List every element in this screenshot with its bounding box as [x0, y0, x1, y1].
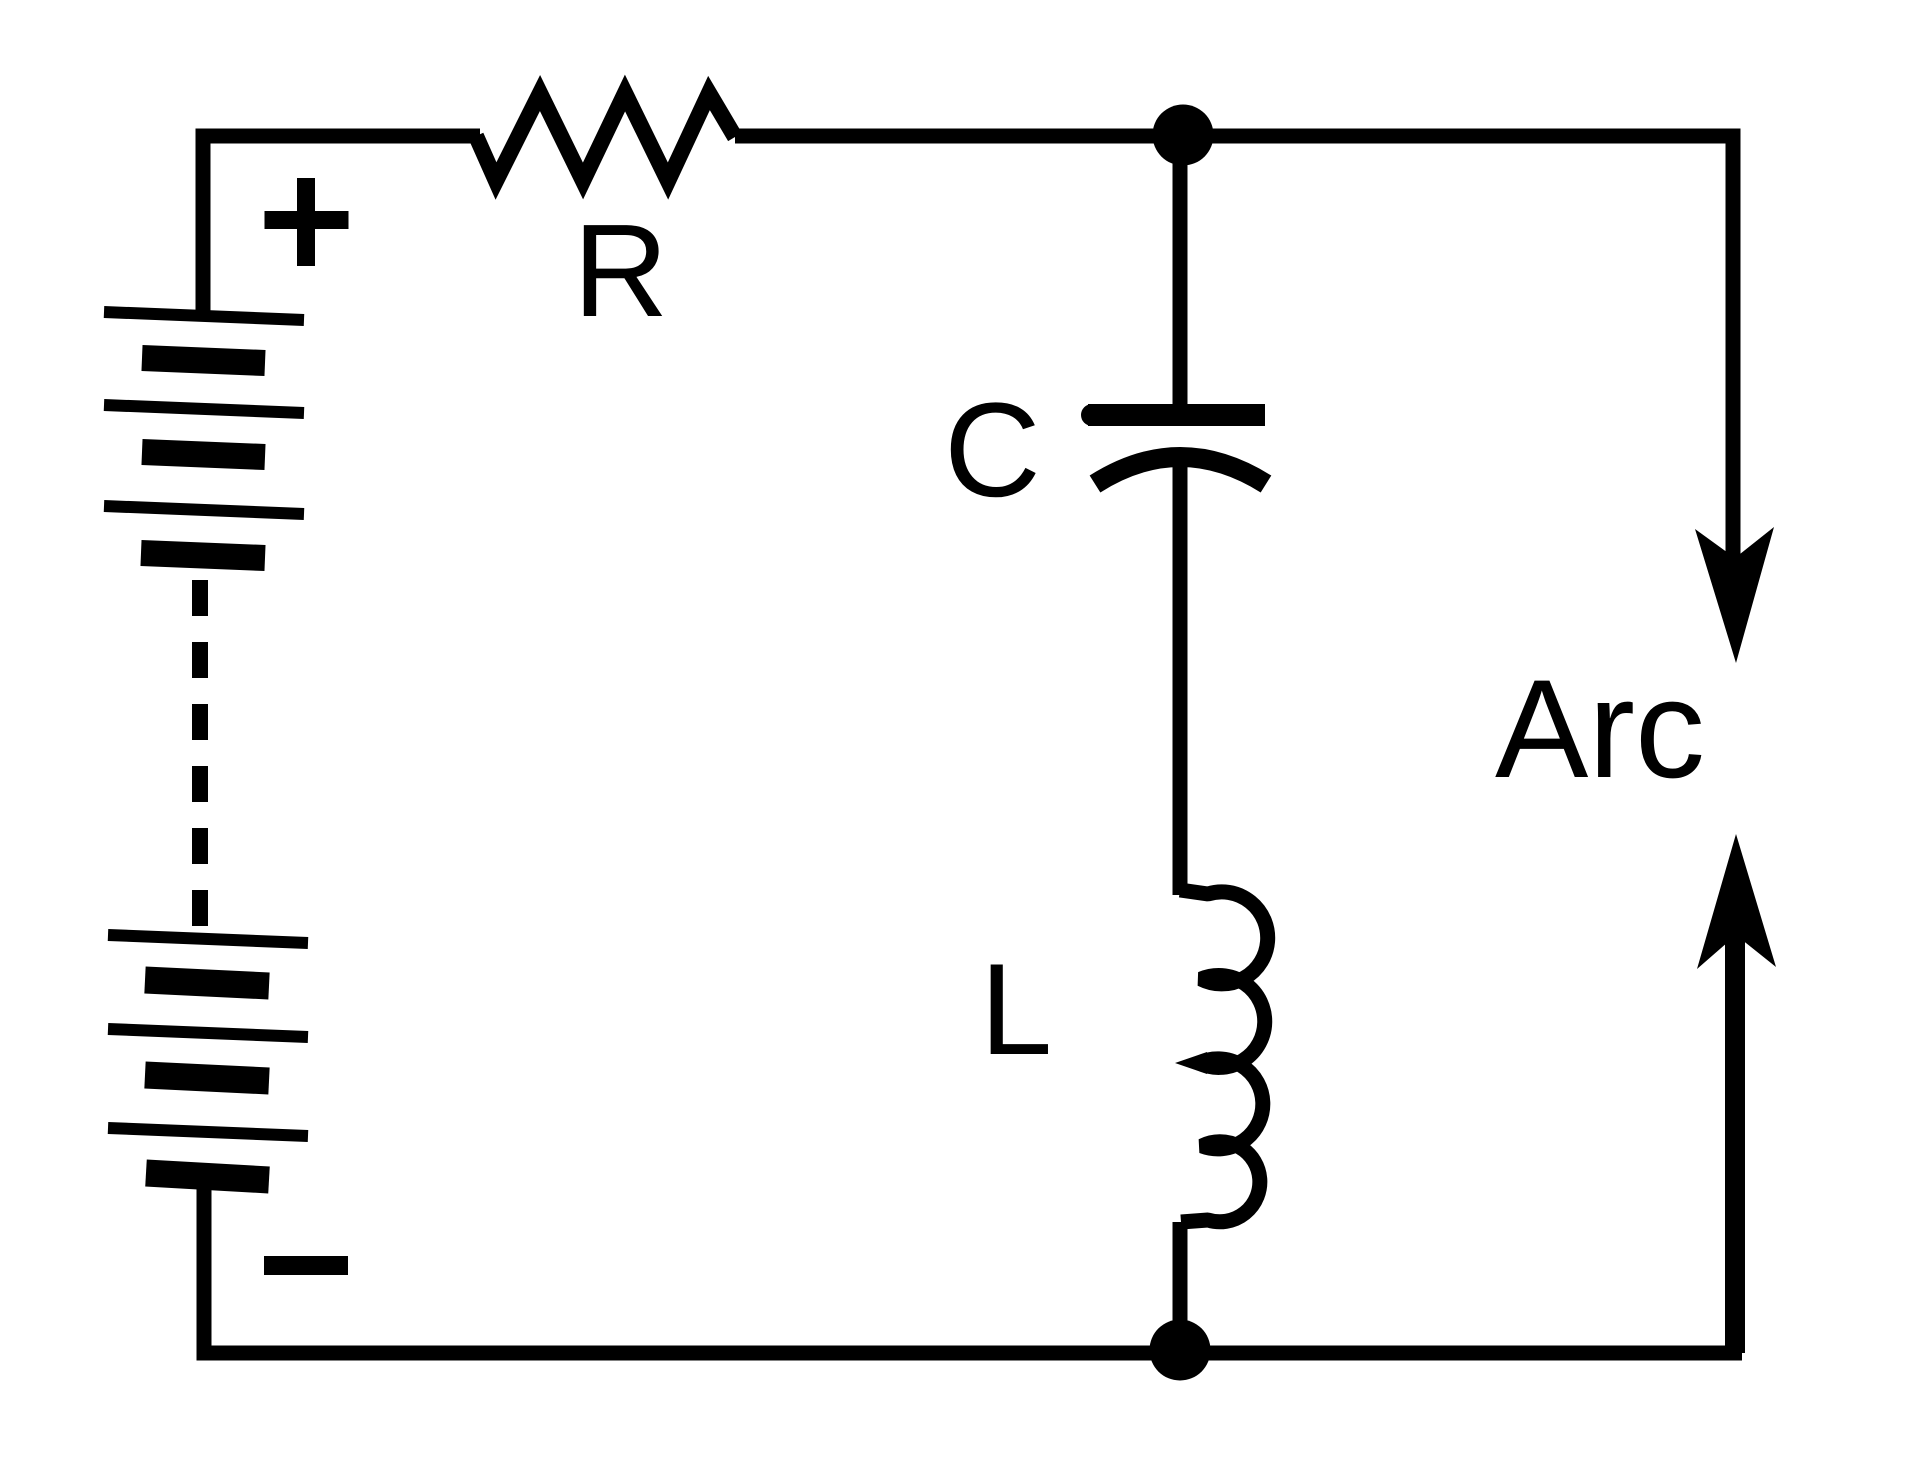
battery cell 3 short plate: [141, 553, 265, 558]
arrow down (arc upper electrode lead): [1695, 527, 1774, 663]
battery cell 4 long plate: [108, 935, 308, 943]
svg-text:Arc: Arc: [1495, 650, 1705, 807]
wire arc bottom arrow shaft to bottom-right corner: [1725, 930, 1745, 1353]
battery cell 2 long plate: [104, 405, 304, 413]
wire battery positive terminal up and across to resistor: [203, 136, 480, 314]
inductor L coil cusp spike: [1175, 1052, 1207, 1074]
svg-text:R: R: [573, 197, 668, 344]
battery cell 1 long plate: [104, 312, 304, 320]
wire resistor to top-right corner through node A: [735, 136, 1733, 560]
capacitor C curved bottom plate: [1095, 457, 1266, 484]
capacitor C top plate rounded left end: [1081, 404, 1103, 426]
battery cell 3 long plate: [104, 506, 304, 514]
node A (top junction dot): [1153, 105, 1214, 166]
capacitor C top plate: [1088, 404, 1265, 426]
battery cell 2 short plate: [142, 452, 265, 457]
battery cell 4 short plate: [145, 980, 269, 986]
wire bottom: node B to battery negative terminal: [204, 1172, 1742, 1353]
battery cell 5 short plate: [145, 1075, 269, 1081]
battery cell 6 short plate: [146, 1173, 269, 1180]
arrow up (arc lower electrode lead): [1697, 834, 1776, 969]
inductor L coil: [1180, 890, 1268, 1222]
battery positive terminal +: [265, 178, 349, 266]
battery cell 5 long plate: [108, 1029, 308, 1037]
wire inductor to node B: [1173, 1222, 1188, 1350]
battery cell 6 long plate: [108, 1128, 308, 1136]
svg-text:L: L: [980, 936, 1052, 1082]
resistor R: [476, 93, 735, 181]
battery cell 1 short plate: [142, 358, 265, 363]
battery B1 cell plates: [104, 312, 308, 1180]
wire node A down to capacitor: [1173, 140, 1188, 412]
node B (bottom junction dot): [1150, 1320, 1211, 1381]
wire capacitor to inductor: [1173, 450, 1188, 895]
battery dashed continuation line: [192, 580, 208, 926]
battery negative terminal -: [264, 1256, 348, 1275]
svg-text:C: C: [944, 376, 1041, 525]
